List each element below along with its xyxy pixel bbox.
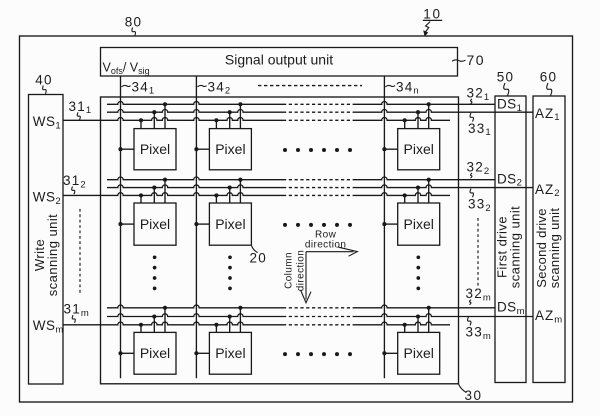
svg-text:Pixel: Pixel xyxy=(140,345,170,361)
lead tilde for 341 xyxy=(122,85,131,86)
svg-text:Pixel: Pixel xyxy=(404,345,434,361)
svg-text:scanning unit: scanning unit xyxy=(45,214,60,296)
auto-zero line 332 xyxy=(107,185,283,188)
svg-text:342: 342 xyxy=(208,79,231,96)
lead line for 80 xyxy=(132,28,136,36)
lead line for 331 xyxy=(470,113,473,122)
auto-zero line 33m xyxy=(107,314,283,317)
svg-text:direction: direction xyxy=(296,250,307,291)
signal feed wire 341 into pixel r2c1 xyxy=(121,223,135,225)
signal line 342 vertical xyxy=(195,77,197,379)
write scan line 31m xyxy=(63,322,283,325)
drive scan line 321 xyxy=(107,102,283,105)
svg-text:331: 331 xyxy=(468,121,491,138)
svg-text:34n: 34n xyxy=(396,79,419,96)
svg-text:Pixel: Pixel xyxy=(404,216,434,232)
junction dots rmcn xyxy=(403,323,407,327)
junction dots r2c2 xyxy=(214,193,218,197)
svg-text:AZm: AZm xyxy=(535,308,562,325)
stub wires into pixel r2c1 xyxy=(140,195,142,203)
svg-text:10: 10 xyxy=(423,6,442,21)
pixel box r1cn xyxy=(398,129,440,170)
svg-text:WS2: WS2 xyxy=(33,189,61,206)
svg-text:70: 70 xyxy=(467,52,486,68)
second drive scanning unit box 60 xyxy=(533,96,565,383)
drive scan line 32m xyxy=(107,305,283,308)
svg-text:60: 60 xyxy=(540,70,558,85)
auto-zero line 331 xyxy=(107,109,283,112)
signal line 341 vertical xyxy=(120,77,122,379)
stub wires into pixel rmc1 xyxy=(140,325,142,333)
lead line for 30 xyxy=(458,384,466,392)
row-continuation dots row 1 xyxy=(283,148,287,152)
svg-text:40: 40 xyxy=(35,72,53,87)
write scanning unit box 40 xyxy=(29,95,64,385)
write scan line 312 xyxy=(63,193,283,196)
lead tilde for 70 xyxy=(452,60,466,61)
svg-text:Pixel: Pixel xyxy=(404,141,434,157)
dashed continuation between 34 labels xyxy=(258,85,362,87)
pixel box r1c1 xyxy=(134,129,176,170)
signal feed wire 342 into pixel r1c2 xyxy=(196,148,209,150)
drive scan line 322 xyxy=(107,177,283,180)
svg-text:312: 312 xyxy=(63,173,86,190)
signal feed wire 34n into pixel r2cn xyxy=(384,223,397,225)
stub wires into pixel r1cn xyxy=(404,120,406,128)
pixel box rmcn xyxy=(398,332,440,374)
svg-text:Vofs/ Vsig: Vofs/ Vsig xyxy=(103,61,150,76)
svg-text:AZ1: AZ1 xyxy=(535,106,560,123)
svg-text:scanning unit: scanning unit xyxy=(508,206,523,288)
lead line for 332 xyxy=(470,189,473,198)
lead line for 321 xyxy=(471,99,473,104)
svg-text:321: 321 xyxy=(467,85,490,102)
row-continuation dots row 2 xyxy=(283,223,287,227)
lead line for 32m xyxy=(470,300,472,305)
svg-text:Pixel: Pixel xyxy=(215,216,245,232)
svg-text:Pixel: Pixel xyxy=(140,141,170,157)
lead line for 312 xyxy=(72,187,75,195)
first drive scanning unit box 50 xyxy=(495,96,526,383)
svg-text:30: 30 xyxy=(465,388,483,403)
right row-continuation dashed line xyxy=(477,218,479,287)
junction dots r1c2 xyxy=(214,118,218,122)
lead line for 40 xyxy=(43,86,47,94)
lead line for 322 xyxy=(471,173,473,178)
svg-text:Signal output unit: Signal output unit xyxy=(225,52,333,68)
svg-text:WS1: WS1 xyxy=(33,114,61,131)
row direction arrow xyxy=(306,251,354,253)
signal feed wire 341 into pixel rmc1 xyxy=(121,352,135,354)
signal line 34n vertical xyxy=(383,77,385,379)
pixel box rmc1 xyxy=(134,332,176,374)
lead line for 50 xyxy=(504,83,509,96)
signal feed wire 342 into pixel rmc2 xyxy=(196,352,209,354)
junction dots rmc2 xyxy=(214,323,218,327)
svg-text:direction: direction xyxy=(305,240,346,251)
lead line for 311 xyxy=(77,112,80,120)
signal feed wire 342 into pixel r2c2 xyxy=(196,223,209,225)
row-continuation dots row m xyxy=(283,352,287,356)
lead line for 60 xyxy=(547,83,552,96)
svg-text:scanning unit: scanning unit xyxy=(547,208,562,289)
svg-text:311: 311 xyxy=(69,99,92,116)
column-continuation dots col 2 xyxy=(228,255,232,259)
svg-text:Pixel: Pixel xyxy=(215,141,245,157)
left row-continuation dashed line xyxy=(79,209,81,294)
pixel box r2c1 xyxy=(134,203,176,245)
lead tilde for 342 xyxy=(197,85,206,86)
svg-text:341: 341 xyxy=(132,79,155,96)
write scan line 311 xyxy=(63,118,283,121)
signal feed wire 34n into pixel r1cn xyxy=(384,148,397,150)
pixel box r1c2 xyxy=(209,129,251,170)
svg-text:AZ2: AZ2 xyxy=(535,182,560,199)
stub wires into pixel r2cn xyxy=(404,195,406,203)
stub wires into pixel rmcn xyxy=(404,325,406,333)
svg-text:Pixel: Pixel xyxy=(215,345,245,361)
column-continuation dots col 1 xyxy=(153,255,157,259)
underline of 10 xyxy=(423,19,442,21)
junction dots r2c1 xyxy=(139,193,143,197)
pixel box r2cn xyxy=(398,203,440,245)
svg-text:DS1: DS1 xyxy=(497,96,522,113)
pixel box rmc2 xyxy=(209,332,251,374)
pixel box r2c2 xyxy=(209,203,251,245)
signal feed wire 34n into pixel rmcn xyxy=(384,352,397,354)
signal feed wire 341 into pixel r1c1 xyxy=(121,148,135,150)
svg-text:Column: Column xyxy=(284,252,295,289)
svg-text:20: 20 xyxy=(250,251,267,266)
svg-text:Pixel: Pixel xyxy=(140,216,170,232)
svg-text:WSm: WSm xyxy=(33,318,64,335)
svg-text:332: 332 xyxy=(468,196,491,213)
svg-text:33m: 33m xyxy=(466,325,491,342)
lead tilde for 34n xyxy=(385,85,395,86)
lead line for 20 xyxy=(252,246,258,253)
stub wires into pixel r2c2 xyxy=(215,195,217,203)
junction dots r2cn xyxy=(403,193,407,197)
svg-text:DSm: DSm xyxy=(497,300,525,317)
signal output unit box 70 xyxy=(101,48,458,77)
pixel array box 30 xyxy=(101,97,459,384)
junction dots rmc1 xyxy=(139,323,143,327)
column-continuation dots col n xyxy=(416,255,420,259)
svg-text:50: 50 xyxy=(497,70,515,85)
svg-text:322: 322 xyxy=(467,160,490,177)
column direction arrow xyxy=(305,252,307,300)
junction dots r1cn xyxy=(403,118,407,122)
lead line for 31m xyxy=(72,315,75,323)
stub wires into pixel r1c2 xyxy=(215,120,217,128)
svg-text:80: 80 xyxy=(125,14,143,29)
zigzag arrow from 10 to frame xyxy=(425,22,431,34)
svg-text:DS2: DS2 xyxy=(497,171,522,188)
lead line for 33m xyxy=(468,317,471,326)
junction dots r1c1 xyxy=(139,118,143,122)
stub wires into pixel r1c1 xyxy=(140,120,142,128)
svg-text:31m: 31m xyxy=(64,302,89,319)
stub wires into pixel rmc2 xyxy=(215,325,217,333)
